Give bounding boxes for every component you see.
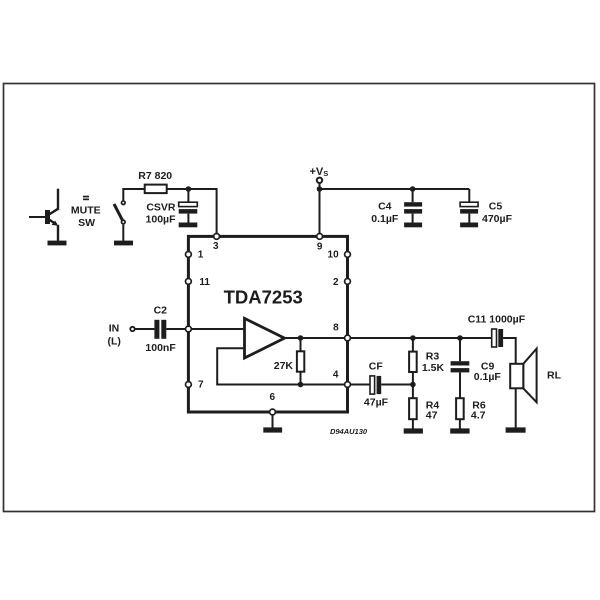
svg-text:D94AU130: D94AU130 <box>330 427 368 436</box>
svg-text:10: 10 <box>328 250 340 261</box>
wire IN to C2 <box>135 328 154 330</box>
junction 27K top <box>298 335 304 341</box>
junction R3 top <box>410 335 416 341</box>
label C2 100nF <box>145 304 176 354</box>
capacitor C2 <box>154 320 166 339</box>
svg-text:TDA7253: TDA7253 <box>224 287 303 308</box>
svg-text:MUTE: MUTE <box>71 205 101 217</box>
switch SW <box>114 201 125 241</box>
svg-text:3: 3 <box>213 241 219 252</box>
pin 9 <box>317 234 323 253</box>
ground (C5) <box>460 223 478 228</box>
junction C4 <box>410 186 416 192</box>
svg-text:CF: CF <box>369 360 384 372</box>
label C4 0.1uF <box>371 201 399 225</box>
svg-text:R7 820: R7 820 <box>138 170 172 182</box>
junction C9 top <box>457 335 463 341</box>
label CSVR 100uF <box>146 202 177 226</box>
pin input (unnumbered) <box>186 326 192 332</box>
junction CSVR node <box>186 186 192 192</box>
node IN (L) <box>107 322 134 347</box>
svg-text:100µF: 100µF <box>146 213 177 225</box>
pin 4 <box>333 369 350 387</box>
svg-text:CSVR: CSVR <box>146 202 176 214</box>
wire +Vs to pin 9 <box>319 183 321 233</box>
svg-text:C4: C4 <box>378 201 392 213</box>
resistor R7 <box>145 185 167 194</box>
ground (switch) <box>114 241 133 246</box>
wire pin 4 to CF <box>351 384 370 386</box>
svg-text:1: 1 <box>198 249 204 260</box>
svg-text:C5: C5 <box>489 201 503 213</box>
svg-text:IN: IN <box>109 322 120 334</box>
wire CF to R3/R4 junction <box>381 384 413 386</box>
ground (R4) <box>404 428 423 433</box>
resistor R3 <box>409 338 417 398</box>
svg-text:11: 11 <box>199 277 210 288</box>
pin 7 <box>186 379 205 390</box>
svg-text:6: 6 <box>270 392 276 403</box>
resistor R4 <box>409 398 417 428</box>
capacitor CF <box>370 376 381 394</box>
label MUTE SW <box>71 196 101 229</box>
op-amp U1 box TDA7253 <box>188 236 347 412</box>
pin 8 <box>333 322 350 341</box>
junction +Vs rail <box>317 186 323 192</box>
capacitor C4 <box>404 189 422 223</box>
svg-text:1.5K: 1.5K <box>422 362 445 374</box>
wire pin 6 to ground <box>272 415 274 427</box>
svg-text:8: 8 <box>333 322 339 333</box>
ground (CSVR) <box>179 223 198 228</box>
resistor R6 <box>456 398 464 428</box>
ground (pin 6) <box>263 427 282 432</box>
svg-text:0.1µF: 0.1µF <box>371 213 399 225</box>
pin 3 <box>213 234 219 253</box>
capacitor CSVR <box>179 189 198 223</box>
ground (C4) <box>404 223 422 228</box>
svg-text:R3: R3 <box>426 351 440 363</box>
wire pin 8 to C11 <box>351 337 492 339</box>
transistor Q1 (mute) <box>29 189 58 241</box>
wire +Vs rail to C5 <box>320 188 470 190</box>
node +Vs <box>310 166 329 183</box>
wire switch to R7 <box>123 189 144 200</box>
ground (transistor emitter) <box>48 241 67 246</box>
wire op-amp output to pin 8 <box>285 337 348 339</box>
svg-text:0.1µF: 0.1µF <box>474 371 502 383</box>
label R6 4.7 <box>471 399 486 421</box>
svg-text:4: 4 <box>333 369 339 380</box>
svg-text:RL: RL <box>547 369 562 381</box>
junction 27K bottom <box>298 382 304 388</box>
resistor 27K <box>297 338 304 385</box>
pin 10 <box>328 250 351 261</box>
pin 2 <box>333 277 350 288</box>
svg-text:100nF: 100nF <box>145 342 176 354</box>
svg-text:47: 47 <box>426 409 438 421</box>
label C9 0.1uF <box>474 361 502 384</box>
junction R3/R4 <box>410 382 416 388</box>
pin 11 <box>186 277 211 288</box>
capacitor C11 <box>492 329 503 347</box>
label R4 47 <box>426 399 440 421</box>
label R3 1.5K <box>422 351 445 374</box>
svg-text:470µF: 470µF <box>482 213 513 225</box>
wire C2 to op-amp input <box>166 328 244 330</box>
capacitor C5 <box>460 189 478 223</box>
pin 6 <box>270 392 276 415</box>
svg-text:SW: SW <box>78 217 95 229</box>
svg-text:7: 7 <box>198 379 204 390</box>
svg-text:27K: 27K <box>274 360 294 372</box>
svg-text:(L): (L) <box>107 335 120 347</box>
svg-text:47µF: 47µF <box>364 397 389 409</box>
capacitor C9 <box>451 338 470 398</box>
svg-text:C11 1000µF: C11 1000µF <box>468 313 526 325</box>
svg-text:4.7: 4.7 <box>471 410 486 422</box>
wire feedback loop <box>217 348 347 384</box>
ground (RL) <box>506 427 526 432</box>
wire R7 to pin 3 <box>167 189 217 233</box>
wire C11 to RL <box>503 338 516 428</box>
label CF 47uF <box>364 360 389 408</box>
svg-text:+VS: +VS <box>310 166 329 178</box>
speaker RL <box>510 349 536 403</box>
svg-text:2: 2 <box>333 277 339 288</box>
svg-text:9: 9 <box>317 242 323 253</box>
ground (R6) <box>450 428 469 433</box>
svg-text:C2: C2 <box>154 304 168 316</box>
pin 1 <box>186 249 204 260</box>
op-amp A1 triangle <box>245 318 285 358</box>
label C5 470uF <box>482 201 513 225</box>
